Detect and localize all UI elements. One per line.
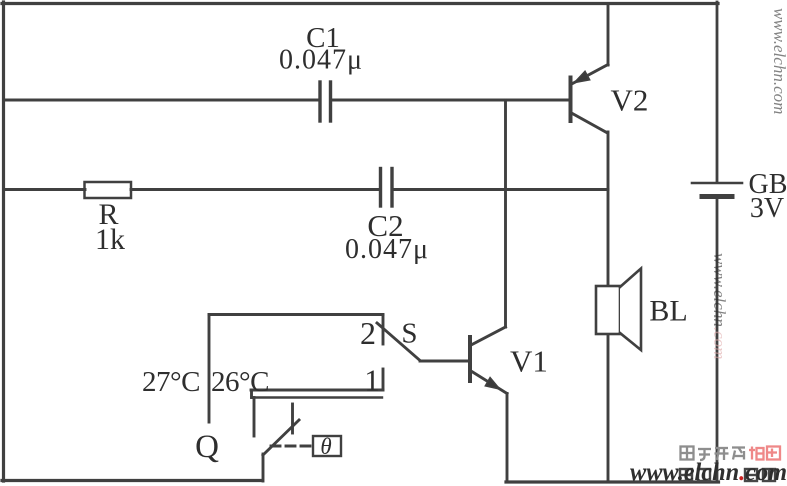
wire top rail bbox=[2, 2, 718, 5]
wire V1 base to switch S bbox=[420, 360, 468, 363]
wire V2 collector down to speaker bbox=[607, 132, 610, 286]
svg-text:V1: V1 bbox=[510, 344, 548, 379]
wire right rail lower bbox=[716, 198, 719, 482]
switch S blade bbox=[377, 323, 420, 361]
svg-text:Q: Q bbox=[195, 429, 219, 465]
logo text gray part bbox=[681, 447, 746, 461]
svg-text:V2: V2 bbox=[611, 83, 649, 118]
wire C1 row from left rail to C1 bbox=[4, 99, 318, 102]
wire right rail upper bbox=[716, 2, 719, 182]
svg-text:www.elchn.com: www.elchn.com bbox=[710, 253, 729, 359]
svg-text:BL: BL bbox=[649, 295, 687, 328]
wire 27C lead down bbox=[208, 315, 211, 423]
logo dark echo glyphs behind web address bbox=[680, 469, 775, 481]
wire 26C lead down bbox=[253, 398, 256, 437]
svg-text:27°C: 27°C bbox=[142, 366, 200, 398]
thermostat Q contact tick bbox=[291, 404, 294, 433]
switch S contact 1 bbox=[382, 369, 385, 390]
theta sensor box bbox=[313, 436, 341, 456]
wire C2 to V2 collector line bbox=[393, 188, 608, 191]
dashed link to theta sensor bbox=[271, 445, 312, 448]
svg-text:www.elchn.com: www.elchn.com bbox=[770, 8, 787, 114]
battery GB bbox=[692, 183, 742, 197]
logo text red part bbox=[749, 447, 780, 460]
capacitor C2 bbox=[381, 169, 393, 207]
svg-text:θ: θ bbox=[320, 434, 331, 459]
svg-text:26°C: 26°C bbox=[211, 366, 269, 398]
resistor R bbox=[85, 182, 132, 198]
svg-text:S: S bbox=[401, 318, 417, 350]
wire V2 emitter up to top rail bbox=[607, 4, 610, 66]
svg-text:2: 2 bbox=[360, 315, 376, 351]
transistor V2 emitter arrow bbox=[575, 71, 590, 82]
wire V1 emitter down to bottom rail bbox=[506, 394, 509, 483]
speaker BL bbox=[596, 269, 641, 351]
capacitor C1 bbox=[320, 82, 331, 121]
wire speaker to bottom rail bbox=[607, 334, 610, 482]
wire 26C stub row bbox=[252, 396, 383, 398]
wire R row: left rail to R bbox=[4, 188, 85, 191]
transistor V1 bbox=[470, 327, 507, 394]
thermostat Q blade bbox=[263, 420, 299, 455]
transistor V1 emitter arrow bbox=[485, 378, 499, 389]
wire left rail bbox=[2, 2, 5, 481]
svg-text:www.elchn.com: www.elchn.com bbox=[630, 459, 787, 486]
wire R to C2 bbox=[131, 188, 379, 191]
wire V1 collector up to C1 row bbox=[504, 100, 507, 327]
wire bottom-right rail bbox=[506, 480, 719, 483]
switch S contact 2 bbox=[382, 315, 385, 344]
wire contact 1 row hook bbox=[250, 390, 253, 398]
wire bottom-left rail bbox=[2, 479, 262, 482]
svg-text:1: 1 bbox=[364, 363, 380, 398]
svg-text:3V: 3V bbox=[750, 193, 784, 224]
svg-text:1k: 1k bbox=[95, 223, 125, 256]
transistor V2 bbox=[571, 65, 609, 134]
wire Q blade to bottom rail bbox=[262, 454, 265, 481]
wire C1 to V2 base bbox=[332, 99, 569, 102]
svg-text:0.047μ: 0.047μ bbox=[279, 45, 363, 76]
wire contact 2 row bbox=[209, 313, 383, 316]
svg-text:0.047μ: 0.047μ bbox=[345, 234, 429, 265]
wire contact 1 row bbox=[251, 389, 383, 392]
